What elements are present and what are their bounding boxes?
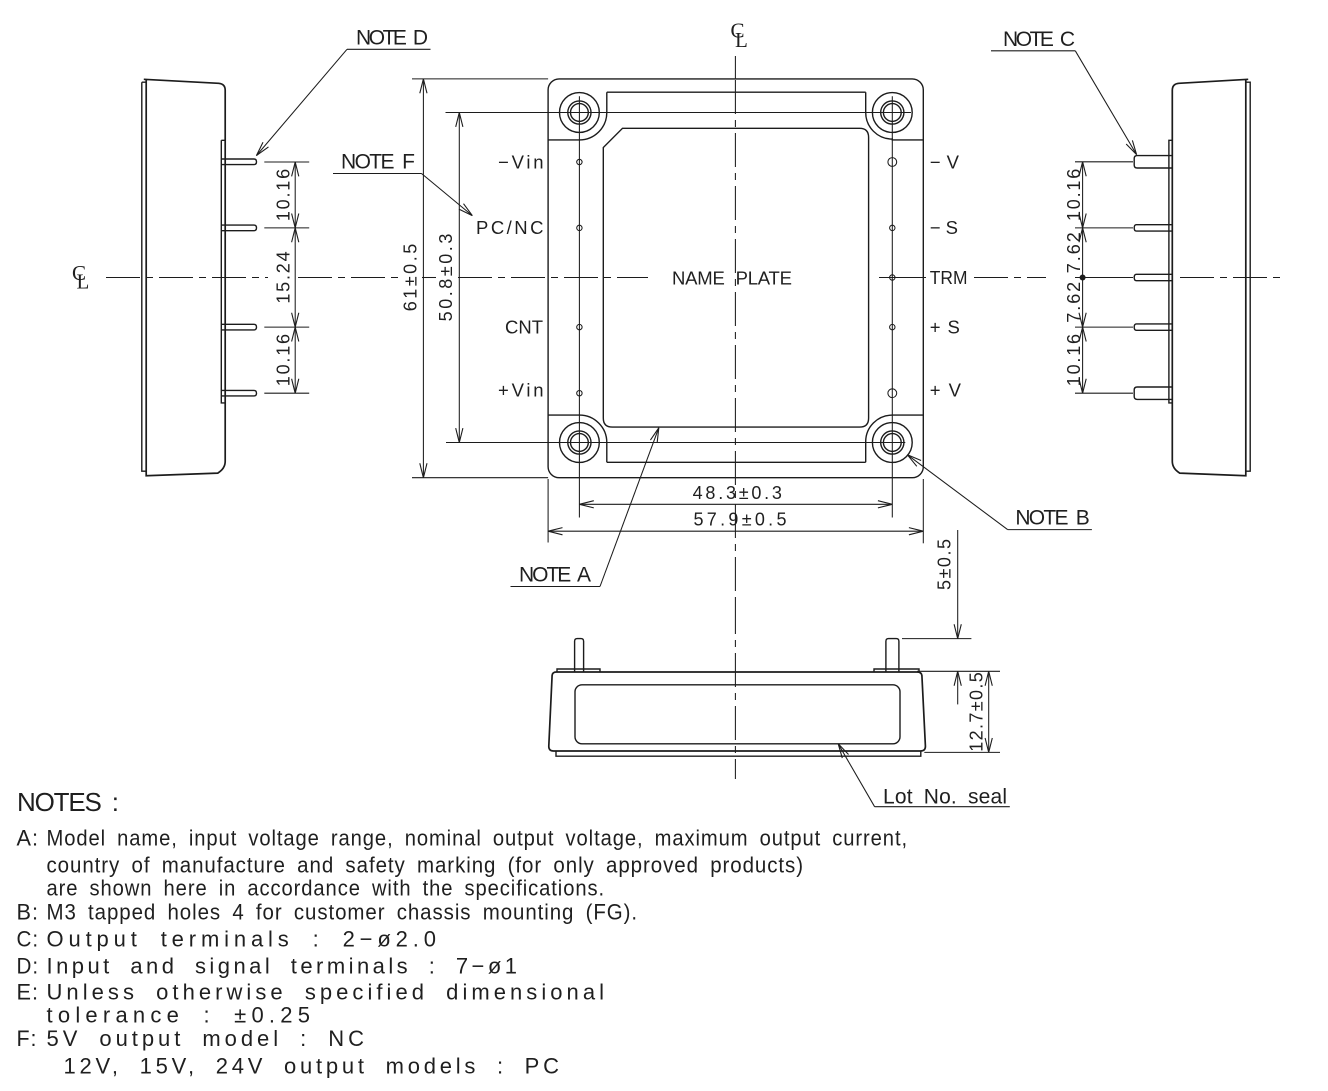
svg-text:C:: C: [17,927,40,952]
svg-text:10.16: 10.16 [274,169,294,221]
dimension 7.62 upper right view [1082,228,1084,278]
pin hole TRM [890,275,895,280]
right pin column line [891,96,893,517]
dimension 48.3 line [579,503,892,505]
pin hole PC/NC [577,225,582,230]
svg-text:country of manufacture and saf: country of manufacture and safety markin… [47,853,805,878]
baseplate strip [142,82,146,471]
NOTE C leader [1075,51,1136,155]
note leader labels [256,26,1136,586]
NOTE D leader [256,49,347,155]
extension line baseplate bottom [924,751,1000,753]
horizontal centerline through right view [1180,277,1286,279]
svg-text:NOTE F: NOTE F [341,151,415,174]
svg-text:10.16: 10.16 [1064,169,1084,221]
case body outline [144,79,225,475]
horizontal centerline short segment [422,277,436,279]
corner pad bottom-right [866,415,924,462]
pin left (bottom view) [575,639,584,672]
svg-text:Model name, input voltage rang: Model name, input voltage range, nominal… [47,826,909,851]
dimension 50.8 line [458,113,460,443]
chain dimension dot [1080,275,1086,281]
dim 5 lower line [957,671,959,704]
pin hole -Vin [577,159,582,164]
horizontal centerline segment right of dims [298,277,400,279]
svg-text:61±0.5: 61±0.5 [401,244,421,312]
NOTE B leader [907,455,1007,530]
hole centerline bottom [446,442,905,444]
Lot No. seal underline [875,806,1010,808]
svg-text:NOTE C: NOTE C [1003,28,1075,51]
svg-text:PC/NC: PC/NC [476,217,544,238]
baseplate slab [556,751,921,756]
extension lines right view pins [1075,162,1133,393]
svg-text:M3 tapped holes 4 for customer: M3 tapped holes 4 for customer chassis m… [47,900,639,925]
dimension 10.16 (top, left view) [294,162,296,228]
svg-text:48.3±0.3: 48.3±0.3 [693,483,782,503]
svg-text:NOTE D: NOTE D [356,26,428,49]
dimension 10.16 top right view [1082,162,1084,228]
left side view [72,79,309,475]
horizontal centerline through box to name plate [458,277,648,279]
svg-text:TRM: TRM [930,267,968,288]
horizontal centerline TRM crosshair [879,277,926,279]
horizontal centerline through left view [106,277,268,279]
svg-text:A:: A: [17,826,40,851]
pin hole +S [890,324,895,329]
svg-text:57.9±0.5: 57.9±0.5 [694,510,787,530]
hole centerline top [446,112,912,114]
Lot No. seal leader [838,744,874,807]
horizontal centerline right of TRM label [974,277,1046,279]
pin +Vin (side) [221,390,256,396]
rim line top [607,91,866,93]
svg-text:15.24: 15.24 [274,251,294,303]
top view [298,19,1046,601]
svg-text:D:: D: [17,954,40,979]
mounting hole top-right [872,93,912,133]
svg-text:−Vin: −Vin [498,151,544,172]
svg-text:L: L [77,270,90,294]
mounting hole top-left [560,93,600,133]
case body outline right [1172,79,1248,475]
left pin column line [578,96,580,517]
svg-text:Output terminals : 2−ø2.0: Output terminals : 2−ø2.0 [47,927,438,952]
corner pad top-left [548,92,607,140]
svg-text:Lot No. seal: Lot No. seal [883,786,1007,809]
svg-text:E:: E: [17,980,40,1005]
svg-text:NOTE B: NOTE B [1015,507,1089,530]
svg-text:+S: +S [930,316,960,337]
svg-text:12V, 15V, 24V output models :: 12V, 15V, 24V output models : PC [64,1054,561,1079]
pin hole -V [888,158,897,167]
NOTE B underline [1008,529,1092,531]
svg-text:5±0.5: 5±0.5 [935,539,955,590]
pin hole CNT [577,324,582,329]
mounting hole bottom-right [872,423,912,463]
svg-text:F:: F: [17,1026,38,1051]
extension line pin top (5 dim) [902,638,971,640]
extension line TRM row (centerline) [1075,277,1133,279]
pin flange face [221,140,225,403]
svg-text:Input and signal terminals : 7: Input and signal terminals : 7−ø1 [47,954,519,979]
svg-text:NAME PLATE: NAME PLATE [672,267,792,288]
dimension 57.9 line [548,530,923,532]
extension line box top (61 dim) [412,78,548,80]
svg-text:+Vin: +Vin [498,380,544,401]
body outline bottom view [549,672,926,751]
dimension 61 line [422,79,424,478]
pin flange face right [1169,140,1172,403]
extension line box right edge down [922,479,924,543]
pin right (bottom view) [886,639,899,672]
svg-text:10.16: 10.16 [1064,334,1084,386]
dimension 10.16 (bottom, left view) [294,327,296,393]
NOTE C underline [991,50,1075,52]
corner pad top-right [866,92,924,140]
pin -Vin (side) [221,159,256,165]
pin PC/NC (side) [221,225,256,231]
svg-text:NOTES :: NOTES : [17,787,121,817]
extension lines for left pins [264,162,309,393]
pin hole +Vin [577,391,582,396]
right side view [1064,79,1286,475]
rim line bottom [607,461,866,463]
svg-text:are shown here in accordance w: are shown here in accordance with the sp… [47,876,606,901]
NOTE A underline [511,586,601,588]
svg-text:tolerance : ±0.25: tolerance : ±0.25 [47,1003,312,1028]
pin hole -S [890,225,895,230]
pin -S (side) [1134,225,1172,231]
pin TRM (side) [1134,274,1172,280]
dimension 15.24 (left view) [294,228,296,327]
NOTE D underline [347,48,431,50]
svg-text:CNT: CNT [505,316,543,337]
vertical centerline through top view [734,80,736,600]
pin +S (side) [1134,324,1172,330]
svg-text:7.62: 7.62 [1064,232,1084,273]
outer case outline [548,79,923,478]
dim 5 upper line [957,530,959,639]
svg-text:Unless otherwise specified dim: Unless otherwise specified dimensional [47,980,606,1005]
svg-text:−V: −V [930,151,960,172]
svg-text:50.8±0.3: 50.8±0.3 [436,234,456,322]
svg-text:+V: +V [930,380,962,401]
dimension 10.16 bottom right view [1082,327,1084,393]
notes block [17,787,909,1079]
flange tab left [557,669,600,672]
svg-text:10.16: 10.16 [274,334,294,386]
svg-text:12.7±0.5: 12.7±0.5 [967,672,987,752]
svg-text:−S: −S [930,217,958,238]
corner pad bottom-left [548,415,607,462]
pin -V thick (side) [1134,156,1172,168]
pin hole +V [888,389,897,398]
extension line box left edge down [547,479,549,543]
svg-text:NOTE A: NOTE A [519,564,591,587]
NOTE A leader [600,428,659,587]
baseplate strip right [1246,82,1250,471]
lot no seal rectangle [575,685,900,744]
pin CNT (side) [221,324,256,330]
NOTE F leader [422,174,473,216]
svg-text:7.62: 7.62 [1064,282,1084,323]
svg-text:L: L [735,28,748,52]
mounting hole bottom-left [560,423,600,463]
extension line body top (shared) [917,670,1000,672]
dim 12.7 line [988,671,990,752]
svg-text:5V output model : NC: 5V output model : NC [47,1026,366,1051]
NOTE F underline [333,173,422,175]
pin +V thick (side) [1134,387,1172,399]
dimensions around top view [401,79,924,543]
bottom view [549,530,1010,809]
dimension 7.62 lower right view [1082,278,1084,328]
extension line box bottom (61 dim) [412,477,548,479]
flange tab right [874,669,919,672]
vertical centerline bottom view [734,600,736,779]
vertical centerline stub below symbol [734,56,736,79]
svg-text:B:: B: [17,900,40,925]
name plate outline [603,128,868,427]
